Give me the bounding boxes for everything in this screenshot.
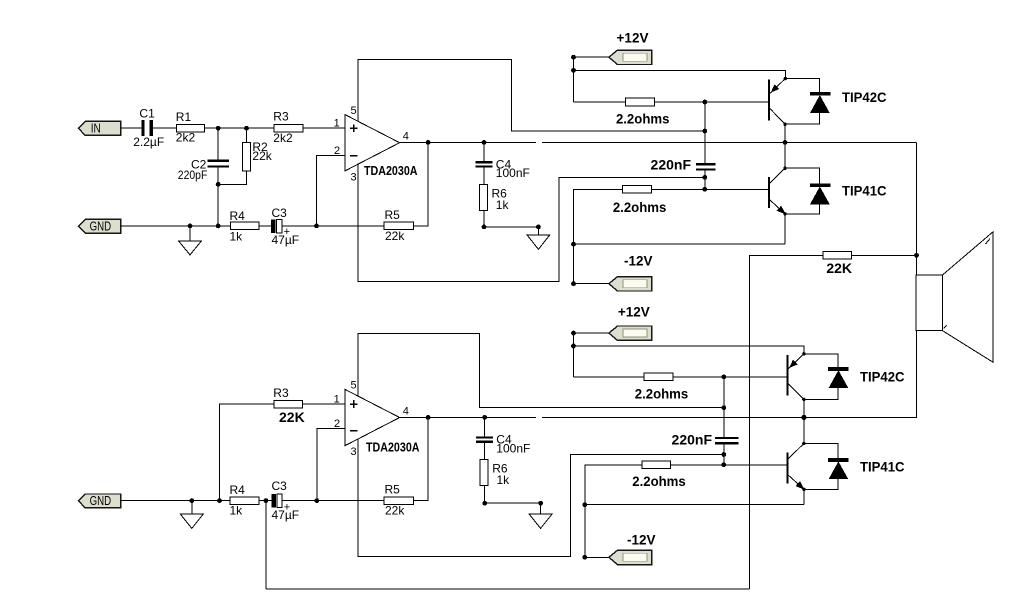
junction output node xyxy=(783,140,788,145)
junction output/R5 xyxy=(426,140,431,145)
wire output rail xyxy=(400,141,917,143)
ground symbol xyxy=(527,227,550,249)
junction rail/C2 xyxy=(216,224,221,229)
svg-text:3: 3 xyxy=(351,171,357,183)
svg-text:-12V: -12V xyxy=(627,533,656,548)
junction pin2 drop ch2 xyxy=(314,498,319,503)
resistor R4 (channel 2) xyxy=(230,497,259,505)
svg-text:22K: 22K xyxy=(279,409,305,425)
svg-text:R1: R1 xyxy=(176,110,192,124)
junction cap bottom ch2 xyxy=(721,452,726,457)
wire output to Q4 collector xyxy=(803,417,805,443)
wire C2 to ground rail xyxy=(217,168,219,226)
svg-text:22K: 22K xyxy=(826,260,852,276)
resistor R5 xyxy=(384,222,414,230)
svg-text:2: 2 xyxy=(334,418,340,430)
wire output down right side xyxy=(916,142,918,275)
svg-text:220pF: 220pF xyxy=(178,168,208,182)
svg-text:22k: 22k xyxy=(385,504,405,518)
junction output/R5 ch2 xyxy=(426,415,431,420)
wire feedback drop ch2 xyxy=(265,501,267,590)
wire R6 to ground xyxy=(483,210,485,227)
svg-text:2.2µF: 2.2µF xyxy=(133,135,164,149)
wire R5 to output xyxy=(414,142,429,226)
resistor R8 2.2ohms (channel 2) xyxy=(642,461,671,469)
resistor R1 xyxy=(176,124,204,131)
junction base rail Q4 xyxy=(721,462,726,467)
svg-text:47µF: 47µF xyxy=(272,233,300,247)
wire pin 2 ch2 xyxy=(317,429,345,501)
diode D3 xyxy=(804,354,849,400)
junction output/C4 ch2 xyxy=(482,415,487,420)
ground symbol xyxy=(179,226,202,255)
svg-text:1: 1 xyxy=(334,394,340,406)
junction ground stem xyxy=(188,224,193,229)
junction emitter rail xyxy=(571,68,576,73)
transistor Q1 TIP42C xyxy=(768,77,787,126)
svg-text:R5: R5 xyxy=(385,208,401,222)
wire R4 to C3 ch2 xyxy=(259,500,271,502)
svg-text:R3: R3 xyxy=(273,386,289,400)
wire output to C4 xyxy=(483,142,485,161)
wire node B to R2 xyxy=(246,128,248,142)
resistor R8 2.2ohms xyxy=(623,186,652,194)
plus input mark xyxy=(350,400,358,408)
diode D1 xyxy=(785,79,830,125)
svg-text:GND: GND xyxy=(90,494,112,508)
junction -12V ch2 xyxy=(582,555,587,560)
junction node B xyxy=(244,126,249,131)
junction emitter rail Q2 xyxy=(571,242,576,247)
capacitor 220nF (channel 1) xyxy=(696,163,716,170)
svg-text:22k: 22k xyxy=(385,229,405,243)
wire R6 ground rail xyxy=(484,226,538,228)
svg-text:47µF: 47µF xyxy=(272,508,300,522)
wire speaker bottom to ch2 output xyxy=(804,331,917,418)
capacitor C3 (channel 2) xyxy=(271,494,282,508)
diode D4 xyxy=(804,444,849,490)
svg-text:TIP41C: TIP41C xyxy=(860,459,905,475)
capacitor C4 xyxy=(475,161,492,167)
wire emitter rail Q2 xyxy=(574,243,786,245)
minus input mark xyxy=(350,155,357,157)
junction cap bottom xyxy=(702,175,707,180)
wire 22K rail xyxy=(750,255,823,589)
junction ground stem ch2b xyxy=(538,501,543,506)
resistor R3 (channel 2) xyxy=(274,400,303,408)
wire R3 to pin 1 xyxy=(303,127,345,129)
wire emitter rail Q3 xyxy=(574,346,804,354)
wire +12V to R7 ch2 xyxy=(574,376,645,378)
capacitor 220nF (channel 2) xyxy=(715,437,739,444)
svg-text:220nF: 220nF xyxy=(672,431,713,447)
resistor R3 xyxy=(274,124,303,131)
connector +12V (channel 2) xyxy=(609,326,652,340)
svg-text:GND: GND xyxy=(90,220,112,234)
wire pin 3 supply loop xyxy=(358,164,705,281)
svg-text:+12V: +12V xyxy=(618,304,650,319)
wire +12V to rail ch2 xyxy=(574,332,609,334)
svg-text:R4: R4 xyxy=(230,483,246,497)
svg-text:TIP42C: TIP42C xyxy=(860,369,905,385)
wire C1 to R1 xyxy=(153,127,176,129)
svg-text:5: 5 xyxy=(351,380,357,392)
wire 220nF vertical top xyxy=(704,102,706,163)
wire pin 5 supply loop ch2 xyxy=(358,334,724,408)
svg-text:2.2ohms: 2.2ohms xyxy=(632,473,686,489)
wire 220nF vertical top ch2 xyxy=(723,377,725,437)
svg-text:R5: R5 xyxy=(385,483,401,497)
wire +12V to R7 xyxy=(574,101,626,103)
svg-text:2k2: 2k2 xyxy=(273,131,293,145)
wire output to Q2 collector xyxy=(784,142,786,168)
wire IN to C1 xyxy=(121,127,142,129)
wire node A to C2 xyxy=(217,128,219,159)
wire R8 left leg ch2 xyxy=(585,465,642,558)
wire 22K to speaker node xyxy=(852,254,917,256)
wire R8 to Q4 base xyxy=(671,464,787,466)
plus input mark xyxy=(350,124,358,132)
junction output node ch2 xyxy=(801,415,806,420)
junction R6 bottom xyxy=(482,225,487,230)
svg-text:220nF: 220nF xyxy=(651,157,692,173)
wire 220nF vertical bottom ch2 xyxy=(723,444,725,465)
capacitor C2 xyxy=(207,160,229,168)
resistor R5 (channel 2) xyxy=(384,497,414,505)
wire C4 to R6 xyxy=(483,168,485,185)
resistor R6 (channel 2) xyxy=(480,459,488,485)
wire Q1 collector to output xyxy=(784,124,786,142)
connector GND (channel 2) xyxy=(79,494,121,508)
wire R6 ground rail ch2 xyxy=(485,502,541,504)
capacitor C3 xyxy=(271,220,282,233)
capacitor C4 (channel 2) xyxy=(476,436,493,443)
junction emitter rail Q4 xyxy=(582,502,587,507)
svg-text:2.2ohms: 2.2ohms xyxy=(613,199,667,215)
svg-text:5: 5 xyxy=(351,105,357,117)
junction +Vs rail ch2 xyxy=(721,405,726,410)
wire +12V vertical xyxy=(573,57,575,102)
junction +12V xyxy=(571,55,576,60)
op-amp U2 TDA2030A xyxy=(345,389,400,446)
junction C3/feedback ch2 xyxy=(264,498,269,503)
junction base rail Q2 xyxy=(702,187,707,192)
connector GND xyxy=(79,219,121,233)
svg-text:+12V: +12V xyxy=(617,30,649,45)
wire GND rail xyxy=(121,225,231,227)
resistor R7 2.2ohms (channel 2) xyxy=(644,373,673,381)
wire emitter rail Q1 xyxy=(574,70,786,78)
transistor Q3 TIP42C xyxy=(786,352,805,401)
speaker LS1 xyxy=(916,232,993,362)
svg-text:1: 1 xyxy=(334,118,340,130)
junction output/C4 xyxy=(482,140,487,145)
junction -12V xyxy=(571,281,576,286)
svg-text:1k: 1k xyxy=(497,473,511,487)
wire GND rail channel 2 xyxy=(121,500,231,502)
transistor Q2 TIP41C xyxy=(768,168,787,215)
junction 22K/speaker xyxy=(914,253,919,258)
resistor R2 xyxy=(243,142,251,171)
svg-text:4: 4 xyxy=(403,405,409,417)
wire output rail ch2 xyxy=(400,416,917,418)
wire pin 5 supply loop xyxy=(358,59,705,131)
junction C2/R2 xyxy=(216,182,221,187)
junction pin2 drop xyxy=(314,224,319,229)
wire Q4 emitter down xyxy=(803,489,805,504)
op-amp U1 TDA2030A xyxy=(345,115,400,172)
resistor R9 22K xyxy=(823,252,852,259)
ground symbol ch2b xyxy=(529,503,552,528)
junction ground stem xyxy=(536,225,541,230)
svg-text:1k: 1k xyxy=(496,198,510,212)
svg-text:4: 4 xyxy=(403,130,409,142)
junction node A xyxy=(216,126,221,131)
wire R8 to Q2 base xyxy=(651,188,768,190)
svg-text:2.2ohms: 2.2ohms xyxy=(635,385,689,401)
wire +12V vertical ch2 xyxy=(573,333,575,377)
svg-text:TDA2030A: TDA2030A xyxy=(366,441,420,455)
wire 220nF vertical bottom xyxy=(704,171,706,190)
junction +Vs rail xyxy=(702,129,707,134)
svg-text:R3: R3 xyxy=(273,110,289,124)
svg-text:2: 2 xyxy=(334,145,340,157)
svg-text:22k: 22k xyxy=(252,149,272,163)
wire bridge feedback bottom rail xyxy=(266,588,750,590)
wire C4 to R6 ch2 xyxy=(484,443,486,460)
minus input mark xyxy=(350,430,357,432)
wire -12V stub xyxy=(574,283,609,285)
svg-text:IN: IN xyxy=(91,122,101,136)
wire C3 to pin 2 node xyxy=(282,225,384,227)
junction +12V ch2 xyxy=(571,331,576,336)
wire R3 left leg ch2 xyxy=(220,404,274,501)
wire R7 to Q1 base xyxy=(655,101,769,103)
junction Q2 collector xyxy=(783,167,786,170)
svg-text:2k2: 2k2 xyxy=(176,131,196,145)
junction base rail ch2 xyxy=(721,375,726,380)
svg-text:2.2ohms: 2.2ohms xyxy=(616,110,670,126)
wire R6 to ground ch2 xyxy=(484,485,486,503)
svg-text:C3: C3 xyxy=(272,206,288,220)
wire emitter rail Q4 xyxy=(585,504,804,506)
wire C3 to pin 2 node ch2 xyxy=(282,500,384,502)
junction base rail xyxy=(702,100,707,105)
svg-text:TIP41C: TIP41C xyxy=(842,182,887,198)
svg-text:TIP42C: TIP42C xyxy=(842,89,887,105)
junction Q4 collector xyxy=(802,442,805,445)
svg-text:R4: R4 xyxy=(230,209,246,223)
resistor R6 xyxy=(479,184,487,210)
svg-text:C3: C3 xyxy=(272,479,288,493)
svg-text:C1: C1 xyxy=(139,107,155,121)
ground symbol ch2 xyxy=(180,501,203,529)
svg-text:100nF: 100nF xyxy=(496,166,530,180)
wire R8 left leg xyxy=(574,189,623,283)
connector +12V (channel 1) xyxy=(609,50,652,64)
wire Q2 emitter down xyxy=(784,214,786,244)
wire R2 bottom xyxy=(218,171,246,184)
wire pin 2 xyxy=(317,156,345,226)
wire -12V stub ch2 xyxy=(585,556,609,558)
svg-text:3: 3 xyxy=(351,446,357,458)
junction emitter rail ch2 xyxy=(571,344,576,349)
svg-text:100nF: 100nF xyxy=(496,441,530,455)
connector -12V (channel 1) xyxy=(609,277,652,291)
wire R1 to R3 xyxy=(205,127,274,129)
wire R7 to Q3 base xyxy=(673,376,787,378)
resistor R7 2.2ohms xyxy=(626,98,655,106)
wire +12V to rail xyxy=(574,56,609,58)
resistor R4 xyxy=(230,222,259,230)
junction ground stem ch2 xyxy=(189,498,194,503)
wire output to C4 ch2 xyxy=(484,417,486,436)
transistor Q4 TIP41C xyxy=(786,444,805,491)
wire pin 3 supply loop ch2 xyxy=(358,439,724,557)
svg-text:1k: 1k xyxy=(230,229,244,243)
junction R3 drop ch2 xyxy=(217,498,222,503)
wire R5 to output ch2 xyxy=(414,417,429,500)
svg-text:1k: 1k xyxy=(230,504,244,518)
wire R4 to C3 xyxy=(259,225,271,227)
connector IN xyxy=(79,121,121,135)
wire R3 to pin 1 ch2 xyxy=(303,403,345,405)
wire Q3 collector to output xyxy=(803,399,805,417)
capacitor C1 xyxy=(141,120,153,136)
svg-text:TDA2030A: TDA2030A xyxy=(364,164,418,178)
svg-text:-12V: -12V xyxy=(624,254,653,269)
connector -12V (channel 2) xyxy=(609,550,652,564)
junction R6 bottom ch2 xyxy=(482,501,487,506)
diode D2 xyxy=(785,168,830,214)
